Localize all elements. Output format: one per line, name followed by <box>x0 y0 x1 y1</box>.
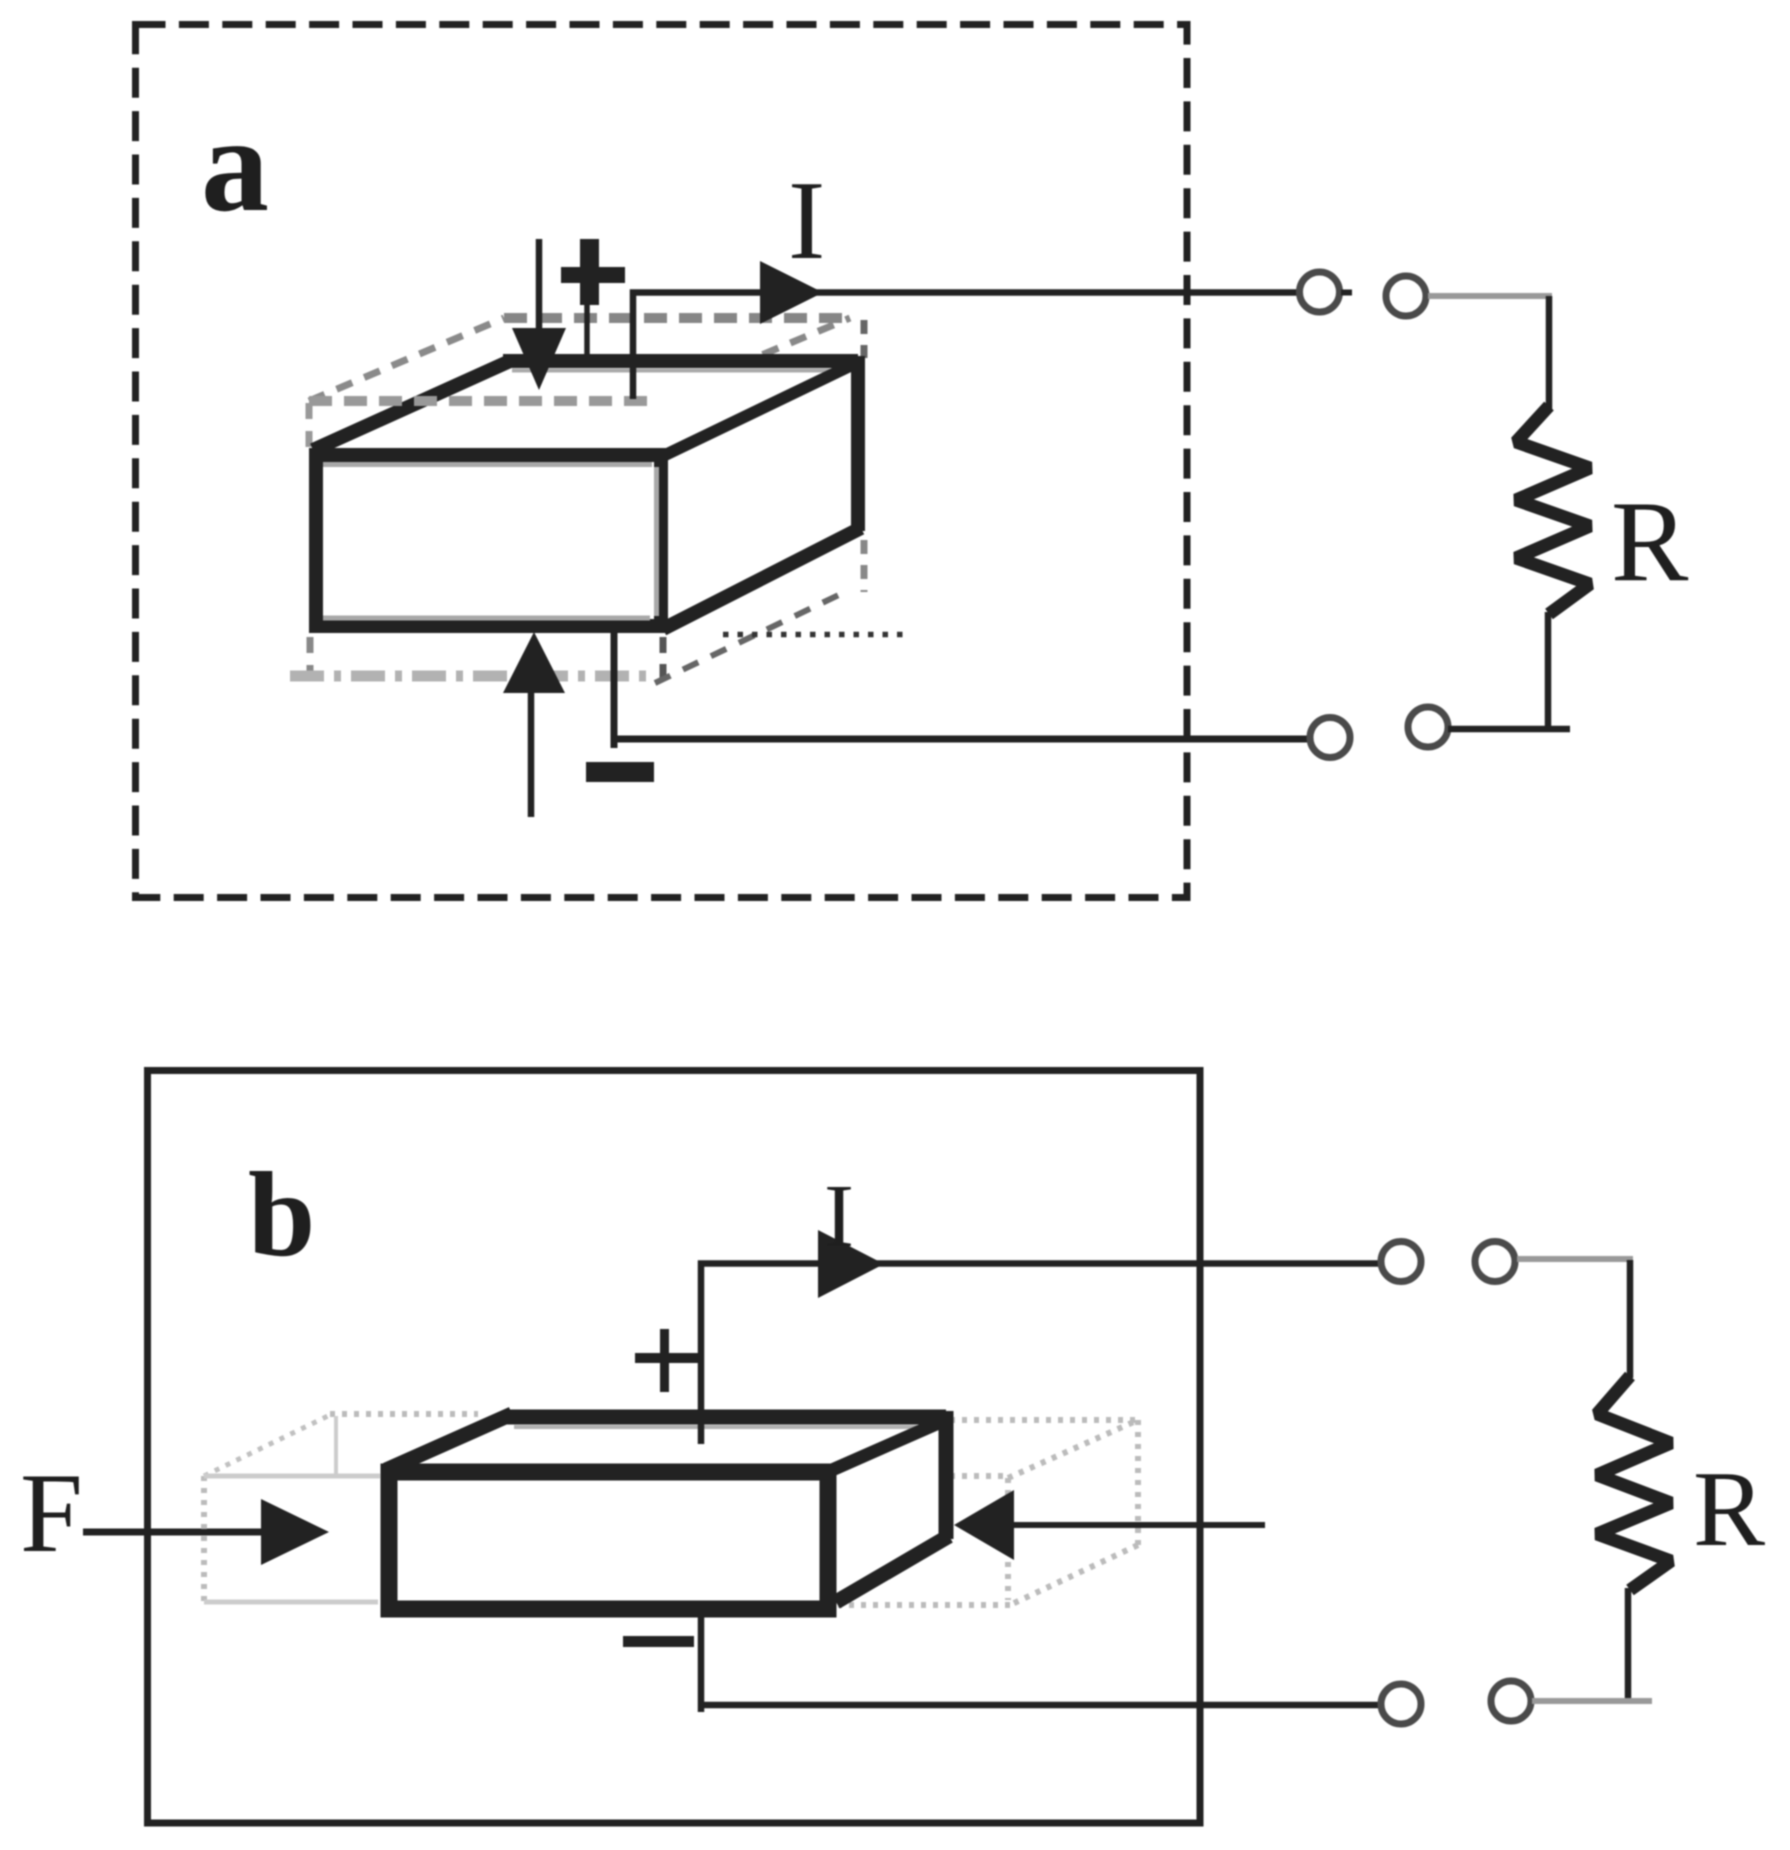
piezo element box (panel a) <box>313 356 861 629</box>
top-right slant edge <box>832 1421 943 1470</box>
wire (dashed back-right vertical lower fragment) <box>861 540 868 592</box>
current arrowhead (panel b) <box>818 1230 884 1298</box>
wire down to resistor (panel b) <box>1627 1260 1634 1378</box>
force arrow pointing left shaft (panel b) <box>1012 1522 1265 1528</box>
wire to terminal b3 <box>701 1702 1381 1709</box>
arrowhead <box>503 632 565 693</box>
wire gray from terminal b2 to resistor branch <box>1517 1256 1633 1262</box>
minus sign (panel a) <box>586 762 654 782</box>
inner gray edge bottom <box>323 616 650 621</box>
dotted front-right vertical <box>1005 1478 1011 1600</box>
plus lead wire (panel a) <box>584 300 590 357</box>
dotted top-right slant <box>1008 1420 1138 1478</box>
wire (dashed left vertical lower fragment) <box>307 637 314 672</box>
wire from resistor bottom (panel b) <box>1625 1588 1632 1699</box>
back-top edge <box>503 354 858 368</box>
wire (dashed back-right vertical of undeformed box) <box>861 320 868 358</box>
wire from top electrode to terminal (panel b) <box>701 1264 1381 1445</box>
node terminal a3 <box>1310 718 1350 758</box>
resistor R (panel b) <box>1597 1376 1671 1590</box>
dotted back-right vertical <box>1135 1420 1141 1545</box>
wire (dashed right slant of undeformed box) <box>652 318 850 401</box>
right face <box>832 1418 947 1607</box>
wire gray from terminal b4 to resistor bottom <box>1532 1698 1652 1704</box>
wire (dashed left vertical of undeformed box) <box>306 403 313 450</box>
plus vertical bar <box>660 1329 669 1392</box>
gray dashed top-face line of undeformed box (over solid box) <box>309 396 652 406</box>
node terminal b3 <box>1381 1684 1421 1724</box>
plus sign (panel a) <box>561 239 625 305</box>
force arrow up (panel a) <box>503 632 565 817</box>
panel a dashed border <box>136 25 1188 898</box>
back-top edge inner gray line <box>512 369 850 373</box>
wire gray from terminal a2 to resistor branch <box>1428 293 1552 299</box>
top face <box>316 361 858 452</box>
top face <box>389 1414 947 1468</box>
svg-text:I: I <box>824 1167 854 1266</box>
node terminal b1 <box>1381 1242 1421 1282</box>
wire (dashed left slant of undeformed box) <box>309 318 504 401</box>
back-top edge <box>505 1410 946 1425</box>
arrow shaft <box>528 690 535 817</box>
gray front-top edge left <box>204 1474 380 1479</box>
top-left slant edge <box>386 1414 512 1470</box>
back-right vertical edge <box>939 1411 954 1539</box>
dotted front-top edge right <box>950 1473 1008 1479</box>
svg-text:R: R <box>1611 478 1689 606</box>
inner gray edge top <box>323 462 652 467</box>
dotted back-top edge right <box>950 1417 1138 1423</box>
wire down to resistor (panel a) <box>1546 296 1553 409</box>
force arrow F head (panel b) <box>261 1499 329 1565</box>
dotted top-left slant <box>204 1414 332 1476</box>
panel b border <box>148 1071 1201 1824</box>
svg-text:I: I <box>788 159 825 283</box>
minus sign (panel b) <box>623 1636 694 1647</box>
svg-text:b: b <box>248 1148 315 1282</box>
top-right slant edge <box>661 365 852 457</box>
piezo element box (panel b) <box>386 1411 949 1609</box>
back-top edge inner gray line <box>514 1425 938 1429</box>
svg-text:R: R <box>1693 1450 1765 1569</box>
terminal circles (panel b) <box>1381 1242 1531 1725</box>
current arrowhead (panel a) <box>760 261 823 324</box>
wire to terminal a3 <box>614 736 1308 743</box>
dotted undeformed box outline (panel b, right) <box>838 1420 1138 1605</box>
right face <box>661 361 858 626</box>
dotted front-left vertical <box>201 1476 207 1602</box>
force arrow down (panel a) <box>512 239 566 390</box>
inner gray edge right <box>654 467 659 616</box>
terminal circles (panel a) <box>1300 272 1449 758</box>
dotted reference line (panel a) <box>723 632 911 638</box>
svg-text:a: a <box>201 90 269 240</box>
dotted front-bottom edge right <box>838 1602 1010 1608</box>
resistor R (panel a) <box>1516 406 1590 614</box>
wire from bottom electrode down (panel b) <box>698 1605 705 1712</box>
wire stub right of terminal a1 <box>1341 290 1352 296</box>
dotted back-top edge left <box>330 1411 478 1417</box>
bottom-right slant edge <box>663 528 861 629</box>
front face <box>316 455 661 626</box>
wire (dashed bottom-right slant of undeformed box) <box>655 591 847 683</box>
bottom-right slant edge <box>836 1536 949 1602</box>
gray front-bottom edge left <box>204 1600 378 1605</box>
wire from terminal a4 to resistor bottom <box>1448 726 1570 733</box>
node terminal a2 <box>1386 276 1426 316</box>
force arrow pointing left head (panel b) <box>954 1490 1014 1560</box>
node terminal b4 <box>1491 1681 1531 1721</box>
force arrow F shaft (panel b) <box>83 1529 263 1536</box>
front face <box>389 1472 828 1609</box>
dotted undeformed box outline (panel b, left) <box>204 1414 478 1602</box>
wire (gray dash-dot bottom line of undeformed box) <box>290 671 650 682</box>
wire from bottom electrode down (panel a) <box>611 631 618 748</box>
node terminal a4 <box>1408 707 1448 747</box>
node terminal a1 <box>1300 272 1340 312</box>
plus horizontal bar <box>561 267 625 283</box>
wire (dashed right vertical of undeformed box) <box>660 637 667 686</box>
wire (dashed back-top edge of undeformed box) <box>504 313 850 323</box>
plus horizontal bar <box>635 1353 699 1363</box>
plus vertical bar <box>580 239 599 305</box>
gray back-left vertical <box>334 1416 338 1474</box>
top-left slant edge <box>313 361 510 450</box>
dotted bottom-right slant <box>1010 1545 1138 1605</box>
node terminal b2 <box>1475 1242 1515 1282</box>
wire from resistor bottom (panel a) <box>1545 612 1552 732</box>
svg-text:F: F <box>20 1451 83 1576</box>
arrow shaft <box>536 239 543 332</box>
arrowhead <box>512 328 566 390</box>
plus sign (panel b) <box>635 1329 699 1392</box>
wire from top electrode to terminal (panel a) <box>633 293 1301 400</box>
dashed undeformed box outline (panel a) <box>290 318 864 686</box>
back-right vertical edge <box>851 356 865 531</box>
